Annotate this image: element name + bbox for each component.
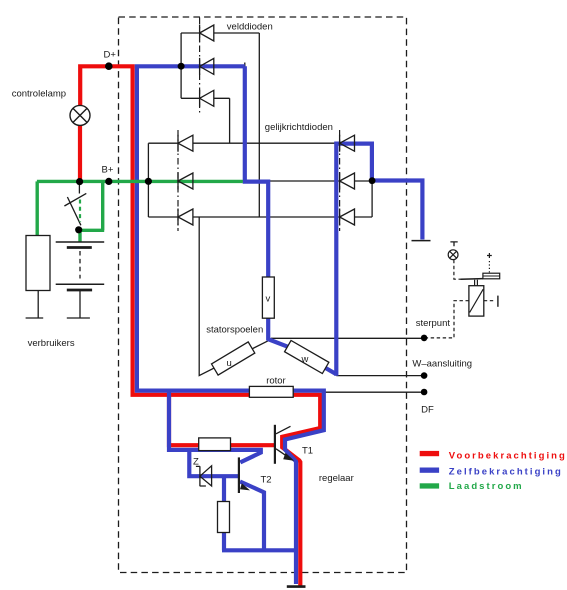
stator coil u box — [212, 342, 255, 375]
legend swatch voorbekrachtiging — [420, 451, 439, 456]
svg-text:T2: T2 — [261, 475, 272, 486]
velddiode 2 — [200, 58, 214, 75]
wire anode velddiode 1 to phase row 3 — [214, 33, 259, 217]
rectifier diode right row 1 — [340, 135, 355, 152]
heatsink dash-dot line right rectifier column — [339, 130, 341, 231]
node dot left rectifier rail — [145, 178, 152, 185]
terminal bar blue wire end B- — [412, 240, 431, 242]
wire DF — [323, 391, 424, 393]
ground bar regulator output — [287, 585, 306, 588]
svg-text:Voorbekrachtiging: Voorbekrachtiging — [449, 451, 567, 462]
node dot right rectifier rail — [369, 177, 376, 184]
svg-text:Laadstroom: Laadstroom — [449, 481, 524, 492]
wire battery to ground — [79, 291, 81, 318]
wire right rectifier rail B- — [355, 143, 373, 217]
verbruikers load box — [26, 236, 50, 291]
wire left rectifier rail B+ — [148, 143, 178, 217]
zelfbekrachtiging blue wire R2 bottom and ground rail — [222, 532, 296, 550]
transistor T1 emitter arrow — [283, 453, 294, 461]
resistor R2 box — [218, 502, 230, 533]
wire verbruikers to ground — [37, 291, 39, 318]
svg-text:u: u — [227, 358, 232, 369]
wire anode velddiode 3 to phase row 1 — [214, 98, 230, 143]
svg-text:W–aansluiting: W–aansluiting — [412, 359, 472, 370]
node dot sterpunt — [421, 335, 428, 342]
svg-text:Z: Z — [193, 457, 199, 468]
svg-text:v: v — [266, 294, 271, 305]
switch stub from B+ node — [78, 184, 80, 194]
velddiode 3 — [200, 90, 214, 107]
relay coil right dashed tail and terminal — [484, 300, 494, 302]
stator coil v box — [262, 277, 274, 318]
laadstroom green wire B+ line — [37, 180, 243, 183]
svg-text:D+: D+ — [104, 50, 117, 61]
svg-text:statorspoelen: statorspoelen — [206, 325, 263, 336]
relay charge lamp — [448, 250, 458, 260]
transistor T1 collector line — [276, 426, 291, 434]
plus terminal — [487, 253, 492, 258]
rectifier diode left row 1 — [178, 135, 193, 152]
zener diode Z — [196, 466, 212, 486]
node dot W-aansluiting — [421, 372, 428, 379]
relay armature link — [475, 280, 478, 286]
wire phase row 2 — [193, 180, 340, 182]
zelfbekrachtiging blue wire branch to regulator — [169, 389, 261, 463]
laadstroom green wire drop to switch bottom and battery — [79, 181, 104, 242]
relay dashed wire lamp to contact — [454, 260, 461, 279]
resistor R1 box — [199, 438, 231, 451]
legend swatch laadstroom — [420, 483, 439, 488]
laadstroom green wire drop to verbruikers — [36, 181, 39, 235]
rectifier diode right row 3 — [340, 209, 355, 226]
wire phase row 3 — [193, 216, 340, 218]
svg-text:B+: B+ — [102, 165, 114, 176]
transistor T1 emitter line — [276, 449, 294, 461]
zelfbekrachtiging blue wire phase v path velddiode 2 — [245, 66, 268, 340]
heatsink dash-dot line velddioden — [199, 18, 201, 116]
wire W-aansluiting — [336, 375, 424, 377]
switch cross stroke — [64, 193, 86, 206]
rectifier diode left row 2 — [178, 173, 193, 190]
ground bar battery — [67, 317, 90, 319]
ground bar verbruikers — [26, 317, 44, 319]
node dot B+ terminal — [105, 178, 112, 185]
controlelamp symbol — [70, 105, 90, 125]
relay contact blade — [461, 278, 484, 281]
node dot lamp B+ junction — [76, 178, 83, 185]
transistor T1 base bar — [274, 425, 276, 464]
wire sterpunt from star point — [271, 337, 424, 339]
zelfbekrachtiging blue wire D+ rail down along red — [135, 66, 324, 584]
voorbekrachtiging red wire main path D+ to rotor and T1 to ground — [80, 66, 320, 586]
zelfbekrachtiging blue wire star to w coil — [268, 339, 337, 374]
heatsink dash-dot line left rectifier column — [177, 130, 179, 231]
transistor T2 emitter arrow — [240, 483, 250, 490]
stator coil w box — [285, 340, 329, 373]
relay fixed contact pad — [483, 273, 500, 279]
laadstroom green dotted through switch — [79, 200, 81, 223]
zelfbekrachtiging blue wire T2 emitter — [240, 482, 264, 551]
wire anode velddiode 2 to phase row 2 — [214, 63, 245, 182]
node dot switch bottom — [75, 226, 82, 233]
svg-text:verbruikers: verbruikers — [28, 338, 75, 349]
zelfbekrachtiging blue wire zener branch — [187, 448, 239, 502]
relay coil left dashed tail to sterpunt — [427, 301, 469, 338]
svg-text:controlelamp: controlelamp — [12, 89, 66, 100]
wire phase u from row 3 down to coil u — [199, 217, 270, 376]
svg-text:T1: T1 — [302, 446, 313, 457]
voorbekrachtiging red wire branch through resistor to T1 base — [169, 394, 274, 445]
svg-text:w: w — [301, 354, 309, 365]
zelfbekrachtiging blue wire phase w up and to ground bar — [336, 144, 422, 376]
svg-text:regelaar: regelaar — [319, 473, 354, 484]
velddiode 1 — [200, 25, 214, 42]
transistor T2 emitter line — [240, 482, 263, 492]
rectifier diode left row 3 — [178, 209, 193, 226]
transistor T2 collector line — [240, 453, 259, 463]
svg-text:rotor: rotor — [266, 376, 286, 387]
relay coil box — [469, 286, 484, 316]
svg-text:velddioden: velddioden — [227, 22, 273, 33]
legend swatch zelfbekrachtiging — [420, 468, 439, 473]
rotor winding box — [249, 386, 293, 397]
svg-text:sterpunt: sterpunt — [416, 318, 451, 329]
svg-text:gelijkrichtdioden: gelijkrichtdioden — [265, 122, 333, 133]
svg-text:DF: DF — [421, 405, 434, 416]
node dot DF — [421, 389, 428, 396]
rectifier diode right row 2 — [340, 173, 355, 190]
wire D+ cathode rail of velddioden — [181, 33, 200, 98]
svg-text:Zelfbekrachtiging: Zelfbekrachtiging — [449, 466, 563, 477]
wire phase row 1 — [193, 142, 340, 144]
node dot D+ rail junction — [178, 63, 185, 70]
transistor T2 base bar — [238, 457, 240, 493]
switch blade — [67, 197, 81, 225]
node dot D+ terminal — [105, 62, 113, 70]
voorbekrachtiging red wire lamp to B+ node — [78, 115, 82, 183]
battery plates — [56, 242, 104, 290]
alternator housing dashed border — [119, 17, 407, 573]
dotted wire plus to contact pad — [488, 261, 490, 273]
relay terminal T symbol — [450, 242, 457, 246]
